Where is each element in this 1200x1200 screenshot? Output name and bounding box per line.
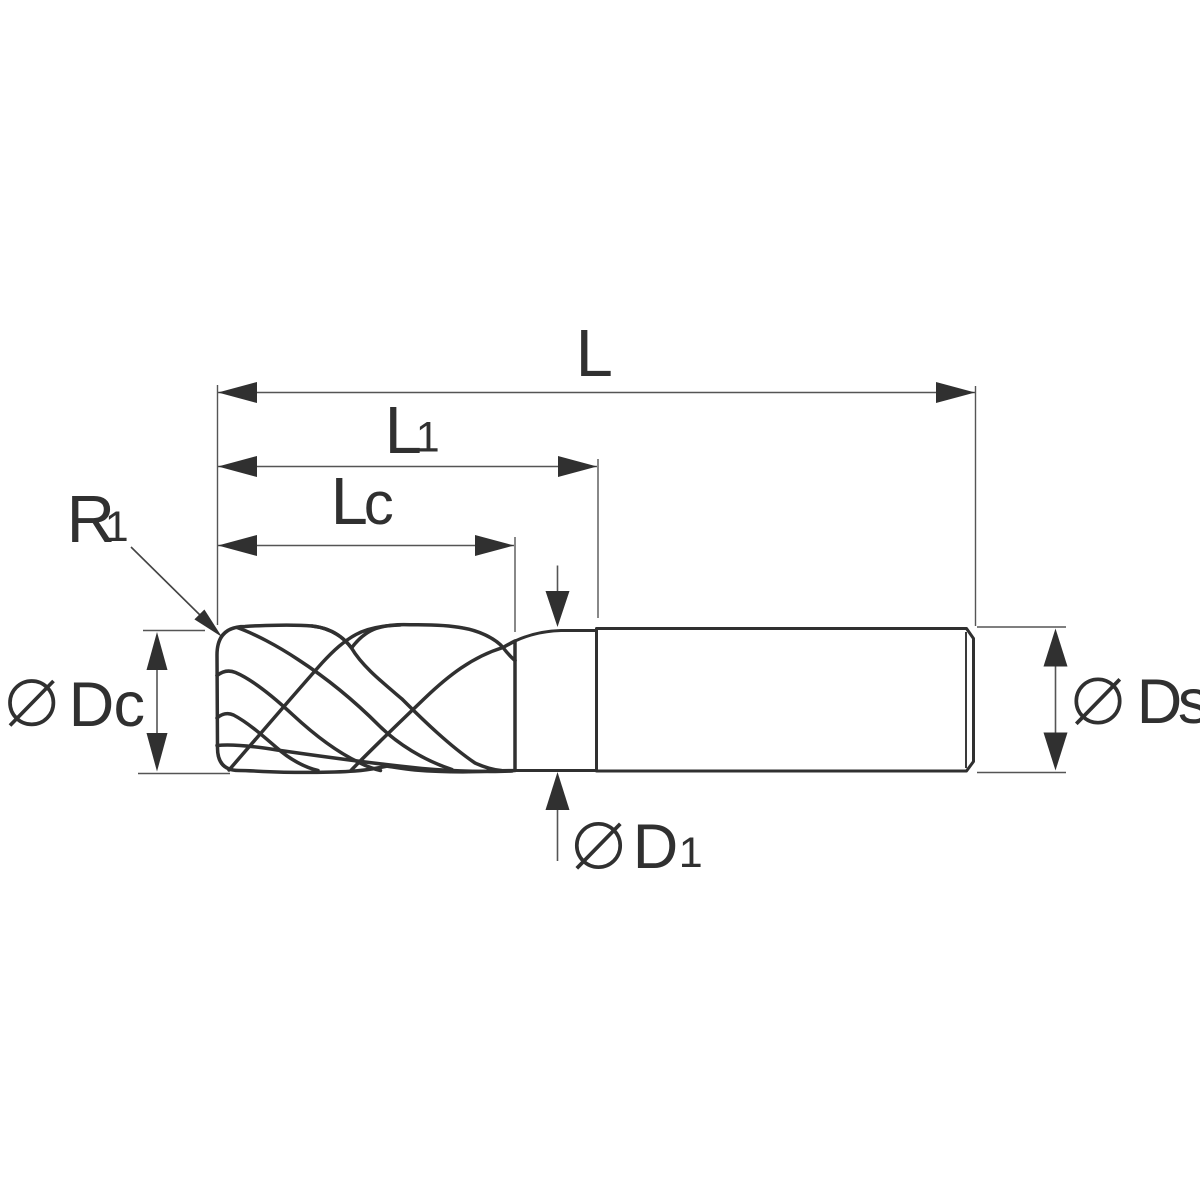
dimension line L	[218, 392, 975, 394]
arrowhead L left	[218, 382, 257, 403]
extension line right for L1	[597, 459, 599, 618]
dimension D1 top arrow down	[546, 591, 570, 627]
flute curve F7 long diagonal from corner	[237, 628, 452, 770]
extension line Dc top	[143, 630, 205, 632]
neck bottom edge	[515, 769, 596, 772]
svg-text:L: L	[576, 316, 613, 391]
flute curve F5 lower left band edge	[217, 714, 318, 771]
dimension Dc arrow down	[147, 733, 168, 772]
dimension D1 bottom arrow up	[546, 772, 570, 810]
svg-text:c: c	[364, 470, 394, 537]
dimension Dc line	[156, 670, 158, 733]
svg-text:1: 1	[679, 829, 703, 877]
extension line Ds top	[977, 626, 1066, 628]
shank chamfer line	[965, 632, 967, 768]
arrowhead L right	[936, 382, 975, 403]
flute curve F6 long shallow bottom arc	[217, 745, 512, 771]
flute curve F1 descending from first notch	[312, 626, 501, 771]
svg-text:1: 1	[105, 503, 129, 551]
label diameter symbol D1	[577, 824, 620, 867]
flute curve F2b tail after second notch	[503, 648, 515, 661]
extension line right for L	[975, 386, 977, 626]
dimension Ds arrow up	[1044, 629, 1068, 667]
arrowhead Lc left	[218, 535, 257, 556]
arrowhead L1 right	[558, 456, 597, 477]
neck top edge	[515, 631, 596, 642]
extension line left for L L1 Lc	[217, 385, 219, 625]
extension line Ds bottom	[977, 772, 1066, 774]
svg-text:D: D	[633, 812, 679, 882]
flute curve F4 upper left band edge	[217, 671, 381, 770]
label diameter symbol Ds	[1076, 679, 1119, 722]
leader arrowhead R1	[194, 610, 222, 638]
arrowhead L1 left	[218, 456, 257, 477]
dimension line Lc	[218, 545, 514, 547]
extension line right for Lc	[514, 537, 516, 632]
label diameter symbol Dc	[10, 681, 53, 724]
flute curve F2 ascending to first notch	[229, 625, 400, 770]
svg-text:c: c	[114, 670, 146, 740]
svg-text:s: s	[1178, 667, 1200, 737]
arrowhead Lc right	[475, 535, 514, 556]
dimension line L1	[218, 466, 597, 468]
dimension D1 bottom stem	[557, 810, 559, 861]
svg-text:D: D	[1137, 667, 1183, 737]
svg-text:L: L	[331, 464, 368, 539]
dimension Dc arrow up	[147, 632, 168, 670]
leader line R1	[131, 547, 203, 618]
svg-text:D: D	[69, 670, 115, 740]
flute curve F3 ascending to second notch	[351, 648, 503, 771]
shank outline	[597, 629, 974, 772]
dimension Ds arrow down	[1044, 733, 1068, 771]
end mill body outline	[217, 625, 515, 773]
dimension D1 top stem	[557, 566, 559, 594]
svg-text:1: 1	[416, 414, 440, 462]
dimension Ds line	[1055, 667, 1057, 733]
extension line Dc bottom	[138, 773, 230, 775]
